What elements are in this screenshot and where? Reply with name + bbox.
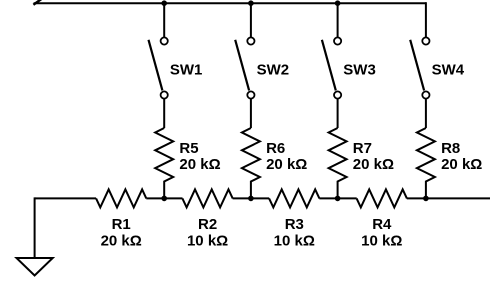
node junction top SW1 bbox=[161, 0, 167, 6]
svg-text:R7: R7 bbox=[353, 140, 372, 157]
ground bbox=[17, 258, 53, 276]
svg-text:20 kΩ: 20 kΩ bbox=[179, 156, 220, 173]
resistor R4 bbox=[357, 189, 407, 207]
wire rail R2 to node B bbox=[233, 197, 270, 199]
node junction top SW2 bbox=[248, 0, 254, 6]
svg-text:20 kΩ: 20 kΩ bbox=[266, 156, 307, 173]
svg-text:R3: R3 bbox=[285, 216, 304, 233]
svg-text:SW2: SW2 bbox=[257, 61, 290, 78]
wire SW2 to R6 bbox=[250, 99, 252, 128]
svg-text:SW4: SW4 bbox=[432, 61, 465, 78]
wire SW1 to R5 bbox=[163, 99, 165, 128]
svg-text:R8: R8 bbox=[441, 140, 460, 157]
node junction bottom R5 bbox=[161, 196, 167, 202]
resistor R3 bbox=[269, 189, 319, 207]
svg-text:SW1: SW1 bbox=[170, 61, 203, 78]
node junction top SW3 bbox=[335, 0, 341, 6]
switch SW4 bbox=[410, 37, 429, 98]
switch SW2 bbox=[235, 37, 254, 98]
wire rail R3 to node C bbox=[319, 197, 356, 199]
wire top bus bbox=[34, 2, 426, 4]
wire rail R4 to right edge bbox=[407, 197, 490, 199]
wire stub to off-page top-left bbox=[33, 0, 41, 5]
svg-text:20 kΩ: 20 kΩ bbox=[441, 156, 482, 173]
node junction bottom R7 bbox=[335, 196, 341, 202]
switch SW1 bbox=[149, 37, 168, 98]
wire bottom rail left segment bbox=[35, 197, 97, 199]
svg-text:SW3: SW3 bbox=[343, 61, 376, 78]
wire SW4 to R8 bbox=[425, 99, 427, 128]
wire bus drop to SW4 bbox=[425, 2, 427, 37]
svg-text:R4: R4 bbox=[372, 216, 392, 233]
svg-text:R6: R6 bbox=[266, 140, 285, 157]
resistor R8 bbox=[417, 128, 435, 198]
resistor R2 bbox=[182, 189, 232, 207]
resistor R1 bbox=[96, 189, 146, 207]
svg-text:R5: R5 bbox=[179, 140, 198, 157]
wire SW3 to R7 bbox=[337, 99, 339, 128]
node junction bottom R6 bbox=[248, 196, 254, 202]
svg-text:20 kΩ: 20 kΩ bbox=[101, 233, 142, 250]
resistor R5 bbox=[155, 128, 173, 198]
svg-text:10 kΩ: 10 kΩ bbox=[361, 233, 402, 250]
wire bus drop to SW1 bbox=[163, 3, 165, 37]
svg-text:R2: R2 bbox=[198, 216, 217, 233]
wire rail R1 to node A bbox=[146, 197, 182, 199]
svg-text:R1: R1 bbox=[112, 216, 131, 233]
switch SW3 bbox=[322, 37, 341, 98]
svg-text:10 kΩ: 10 kΩ bbox=[274, 233, 315, 250]
wire rail to ground bbox=[34, 197, 36, 258]
node junction bottom R8 bbox=[423, 196, 429, 202]
wire bus drop to SW3 bbox=[337, 3, 339, 37]
resistor R7 bbox=[329, 128, 347, 198]
wire bus drop to SW2 bbox=[250, 3, 252, 37]
resistor R6 bbox=[242, 128, 260, 198]
svg-text:10 kΩ: 10 kΩ bbox=[187, 233, 228, 250]
svg-text:20 kΩ: 20 kΩ bbox=[353, 156, 394, 173]
